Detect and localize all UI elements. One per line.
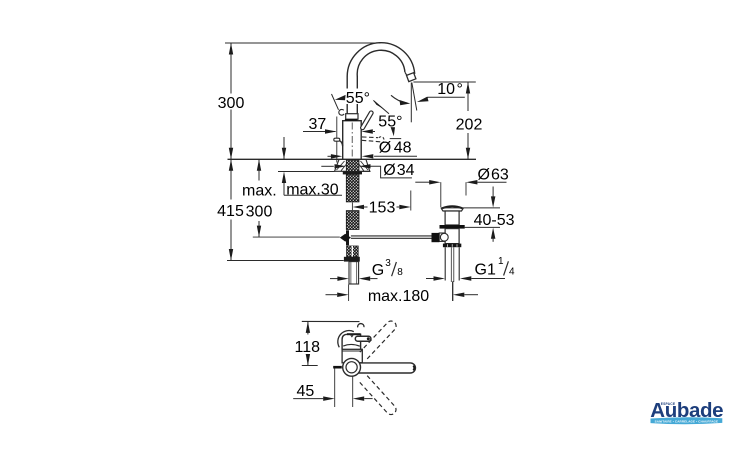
svg-text:1: 1	[498, 256, 504, 267]
lever lowered position (dashed)	[362, 137, 384, 142]
faucet spout inner arc	[357, 50, 405, 76]
dimension 153	[353, 191, 411, 217]
threaded shank through deck	[346, 160, 359, 172]
faucet body	[343, 121, 362, 160]
drain pop-up flange dome	[441, 206, 463, 211]
deck flange with hatching	[335, 160, 370, 172]
svg-text:max.: max.	[242, 183, 277, 200]
cartridge cap	[346, 114, 358, 120]
label G1 1/4 with arrows	[426, 256, 515, 281]
dimension max.300 (hose length)	[242, 159, 277, 237]
svg-text:Ø48: Ø48	[379, 139, 412, 156]
svg-text:40-53: 40-53	[474, 212, 515, 229]
top view: spout tip curl	[358, 324, 364, 328]
pop-up rod joint diamond	[340, 234, 351, 242]
spout inner to aerator connector	[405, 72, 407, 75]
drain locknut	[440, 225, 465, 229]
lever swing small arc	[339, 109, 344, 115]
label 10 degrees with leader	[417, 81, 465, 102]
top view: boss outer circle	[343, 358, 361, 376]
spout swivel arc with arrowhead	[391, 95, 410, 105]
svg-text:118: 118	[295, 339, 321, 356]
drain tailpipe	[445, 247, 459, 282]
water stream line vertical	[410, 83, 412, 123]
pull-rod knob	[334, 138, 343, 146]
top view: dome arc	[338, 331, 354, 348]
svg-text:300: 300	[246, 204, 273, 221]
cap joint band	[345, 119, 358, 121]
dimension 118	[295, 321, 321, 365]
svg-text:37: 37	[309, 116, 327, 133]
rod reference line to max300	[253, 236, 340, 238]
top view: pivot pin	[355, 336, 371, 341]
drain body	[445, 229, 459, 244]
top view: cartridge arch line	[343, 344, 360, 346]
top view: lever swung up (dashed)	[360, 321, 396, 359]
faucet spout outer arc	[347, 43, 415, 114]
label D34 shank with leader	[321, 162, 414, 179]
label 55 degrees (second) with down arrow	[378, 114, 402, 139]
threaded shank upper section	[346, 174, 359, 202]
svg-text:202: 202	[456, 117, 483, 134]
check valve block	[347, 246, 359, 257]
water stream line tilted 10deg	[412, 83, 417, 111]
svg-text:max.30: max.30	[286, 181, 339, 198]
pop-up rod vertical pin	[346, 230, 349, 245]
dimension 40-53	[441, 187, 515, 242]
body centerline	[351, 123, 353, 159]
svg-text:45: 45	[297, 383, 315, 400]
top view: head top edge	[347, 333, 361, 335]
locknut under deck	[343, 172, 362, 175]
svg-text:415: 415	[217, 203, 244, 220]
dimension 202 (spout height)	[413, 82, 482, 159]
svg-text:Ø63: Ø63	[478, 167, 509, 184]
label 55 degrees (first) with leaders	[332, 89, 390, 114]
label G3/8 with arrows	[330, 258, 403, 281]
svg-text:8: 8	[397, 267, 403, 278]
rod clamp block	[432, 233, 440, 242]
top view: pin end blob	[367, 337, 370, 340]
svg-text:153: 153	[369, 200, 396, 217]
top view: body block	[342, 349, 362, 363]
shank end nut	[344, 257, 360, 262]
svg-text:55°: 55°	[346, 90, 370, 107]
lever handle raised	[363, 113, 372, 128]
deck reference line	[228, 158, 477, 160]
dimension max.30 (deck thickness)	[278, 137, 342, 198]
svg-text:ESPACE: ESPACE	[661, 402, 676, 406]
top view: lever swung down (dashed)	[360, 376, 396, 415]
dimension 300 (height above deck)	[218, 43, 381, 159]
top view: spout tip reference line	[302, 320, 360, 322]
aerator tip	[407, 73, 416, 82]
spout left tube lines	[346, 76, 348, 114]
svg-text:SANITAIRE • CARRELAGE • CHAUFF: SANITAIRE • CARRELAGE • CHAUFFAGE	[655, 420, 719, 424]
pop-up horizontal rod	[351, 236, 432, 238]
top view: lever end mark	[413, 366, 414, 371]
top view: boss inner circle	[346, 362, 357, 373]
threaded shank lower section	[346, 211, 359, 230]
tailpipe coupling nut	[443, 244, 461, 248]
dimension 45	[293, 369, 372, 408]
dimension max.180	[326, 281, 479, 305]
dimension 37 (body width)	[303, 116, 375, 162]
svg-text:max.180: max.180	[368, 288, 429, 305]
Aubade logo	[650, 399, 723, 424]
G3/8 supply pipe	[349, 262, 359, 284]
top view: lever bar	[351, 363, 415, 373]
wall tick	[333, 366, 342, 369]
deck underside right segment	[362, 170, 371, 172]
label D63 drain flange	[415, 167, 509, 208]
dimension 415 (total height)	[217, 159, 344, 260]
label D48 body diameter	[328, 139, 418, 158]
svg-text:4: 4	[509, 266, 515, 277]
svg-text:G: G	[372, 262, 384, 279]
drain centerline extension	[452, 282, 454, 301]
top view: head block	[342, 334, 361, 349]
svg-text:Ø34: Ø34	[383, 162, 414, 179]
boss pivot ball	[440, 233, 448, 241]
shank centerline tick in gap	[351, 203, 353, 211]
svg-text:G1: G1	[475, 262, 496, 279]
top view: head notch	[350, 335, 353, 337]
svg-text:10°: 10°	[437, 81, 463, 98]
svg-text:55°: 55°	[378, 114, 402, 131]
svg-text:300: 300	[218, 95, 245, 112]
svg-text:3: 3	[385, 258, 391, 269]
drain neck	[445, 211, 459, 225]
rod boss	[439, 233, 445, 241]
